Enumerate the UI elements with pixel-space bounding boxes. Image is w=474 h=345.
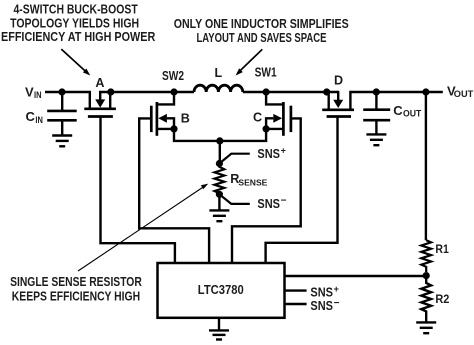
pin label SNS- (sense resistor) (257, 196, 286, 212)
svg-text:C: C (393, 103, 403, 118)
svg-text:D: D (334, 74, 343, 88)
svg-text:OUT: OUT (403, 109, 422, 119)
svg-text:IN: IN (35, 115, 43, 125)
ground (LTC3780) (209, 330, 229, 339)
svg-text:IN: IN (34, 90, 42, 100)
svg-text:+: + (334, 284, 339, 294)
wire: gate C to LTC3780 (232, 118, 301, 263)
ground (R2) (416, 322, 436, 333)
transistor C (switch C) (266, 92, 291, 136)
annotation note: only one inductor (174, 16, 349, 45)
svg-text:EFFICIENCY AT HIGH POWER: EFFICIENCY AT HIGH POWER (1, 29, 156, 44)
pin label SNS- (LTC3780) (310, 298, 339, 313)
wire: VIN rail to switch A drain (45, 91, 90, 93)
svg-text:−: − (281, 196, 287, 207)
wire: bottom link down to sense resistor (219, 141, 221, 164)
wire: gate D to LTC3780 (266, 117, 338, 264)
node: B source junction (170, 125, 177, 132)
svg-text:V: V (25, 84, 34, 99)
node: VOUT/R1 junction (422, 88, 429, 95)
value label CIN (26, 109, 43, 125)
wire: rail from A to SW2 (100, 91, 194, 93)
node: COUT junction (373, 88, 380, 95)
value label COUT (393, 103, 421, 119)
net label VOUT (447, 83, 474, 99)
annotation arrow to switch A (61, 49, 90, 75)
transistor B (switch B) (151, 92, 174, 136)
node: VIN/CIN junction (58, 88, 65, 95)
annotation arrow to RSENSE (78, 184, 208, 271)
annotation note: single sense resistor (10, 274, 142, 303)
svg-text:SINGLE SENSE RESISTOR: SINGLE SENSE RESISTOR (10, 274, 142, 289)
svg-text:LAYOUT AND SAVES SPACE: LAYOUT AND SAVES SPACE (197, 30, 327, 45)
wire: feedback line from LTC3780 to divider (284, 275, 426, 277)
node SW1 (263, 88, 270, 95)
ground (CIN) (52, 136, 72, 147)
node SW2 (170, 88, 177, 95)
wire: gate B to LTC3780 (139, 118, 209, 263)
wire: SNS+ tap (219, 154, 249, 164)
svg-text:R1: R1 (435, 244, 449, 256)
wire: gate A to LTC3780 (101, 117, 175, 264)
svg-text:C: C (26, 109, 36, 124)
node: SNS- junction (216, 191, 223, 198)
node: switch A source junction (107, 88, 114, 95)
annotation arrow to inductor L (236, 49, 263, 75)
wire: rail from D to VOUT (350, 91, 442, 93)
svg-text:SNS: SNS (310, 299, 333, 313)
IC U1 LTC3780 (158, 263, 285, 318)
annotation note: 4-switch topology (1, 2, 156, 45)
inductor L (194, 85, 243, 92)
svg-text:R2: R2 (435, 294, 449, 306)
wire: sense resistor to ground (218, 194, 220, 210)
resistor RSENSE (215, 164, 225, 195)
svg-text:SW1: SW1 (255, 65, 277, 79)
capacitor CIN (47, 92, 76, 135)
wire: rail from L to switch D (243, 91, 338, 93)
value label RSENSE (230, 172, 268, 187)
svg-text:ONLY ONE INDUCTOR SIMPLIFIES: ONLY ONE INDUCTOR SIMPLIFIES (174, 16, 349, 31)
svg-text:B: B (181, 112, 190, 126)
ground (COUT) (366, 134, 386, 145)
node: R1/R2 feedback junction (423, 272, 430, 279)
wire: VOUT down to R1 (425, 92, 427, 240)
svg-text:SNS: SNS (310, 285, 333, 299)
node: switch D junction (323, 88, 330, 95)
svg-text:SW2: SW2 (162, 69, 184, 83)
svg-text:L: L (214, 66, 222, 80)
svg-text:OUT: OUT (454, 89, 474, 99)
wire: SNS- tap (219, 194, 249, 204)
transistor A (switch A) (84, 91, 116, 117)
wire: LTC3780 ground lead (218, 318, 220, 330)
node: sense junction on bottom link (216, 137, 223, 144)
ground (RSENSE) (209, 210, 229, 221)
capacitor COUT (363, 92, 390, 134)
resistor R1 (421, 240, 431, 272)
svg-text:C: C (253, 111, 262, 125)
svg-text:LTC3780: LTC3780 (198, 282, 244, 297)
svg-text:+: + (281, 146, 286, 156)
pin label SNS+ (sense resistor) (257, 146, 285, 162)
net label VIN (25, 84, 42, 100)
node: SNS+ junction (216, 160, 223, 167)
wire: B source to C source bottom link (174, 129, 266, 141)
svg-text:TOPOLOGY YIELDS HIGH: TOPOLOGY YIELDS HIGH (10, 15, 139, 30)
pin wire SNS+ (LTC3780) (284, 289, 307, 291)
pin label SNS+ (LTC3780) (310, 284, 338, 299)
resistor R2 (421, 276, 431, 322)
node: C source junction (263, 125, 270, 132)
transistor D (switch D) (322, 91, 354, 117)
svg-text:SENSE: SENSE (238, 177, 267, 187)
svg-text:SNS: SNS (257, 197, 280, 211)
pin wire SNS- (LTC3780) (284, 303, 307, 305)
svg-text:SNS: SNS (257, 147, 280, 161)
svg-text:KEEPS EFFICIENCY HIGH: KEEPS EFFICIENCY HIGH (12, 289, 140, 304)
svg-text:−: − (334, 298, 340, 309)
svg-text:A: A (95, 76, 104, 90)
